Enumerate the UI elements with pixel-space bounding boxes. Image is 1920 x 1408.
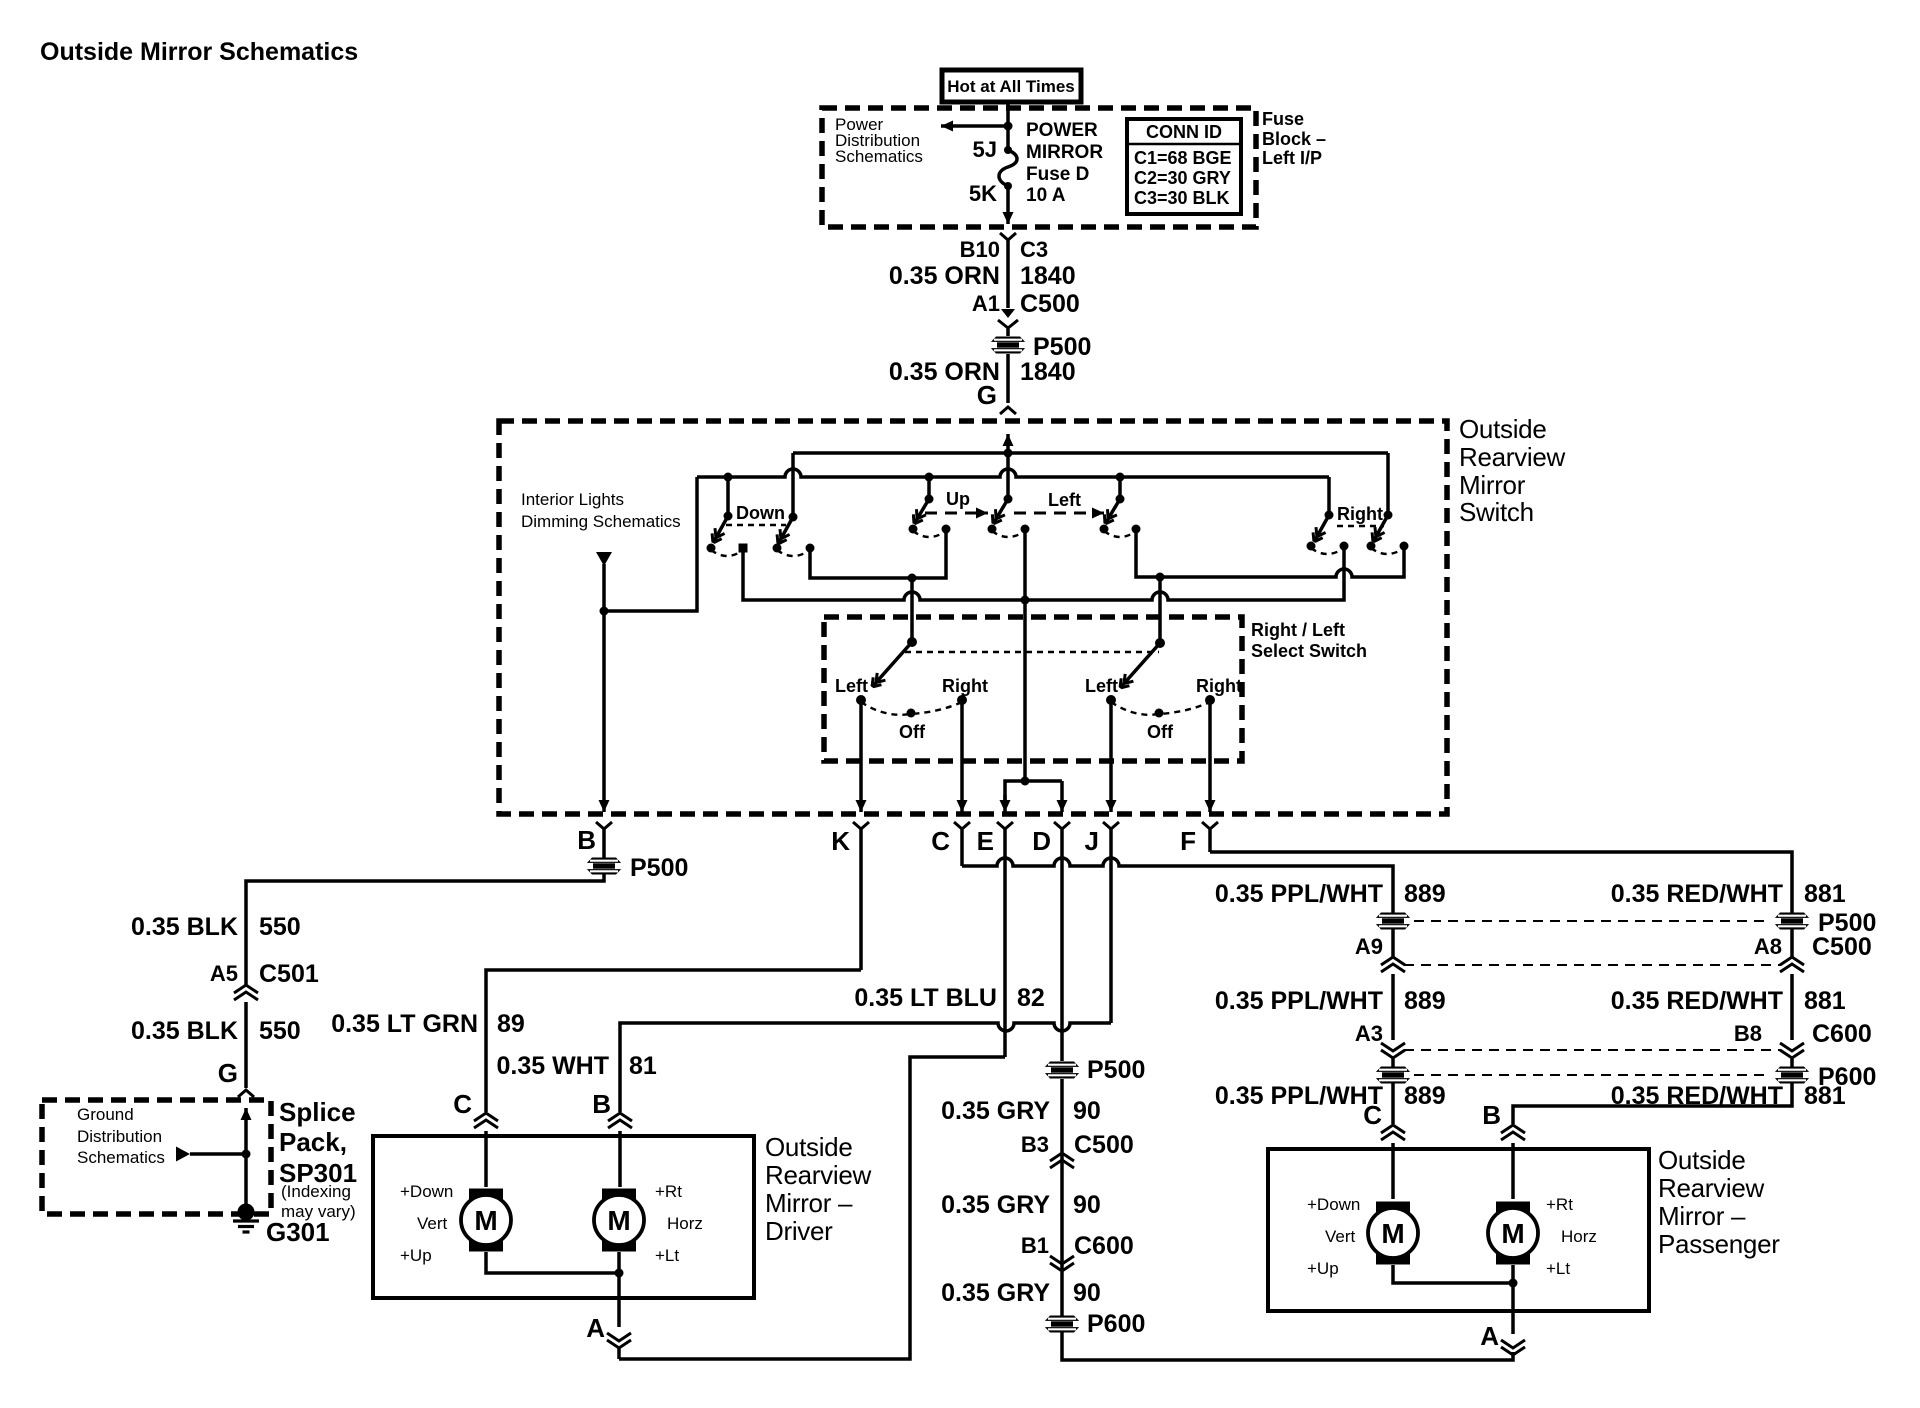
- connector C500 chevrons (D net): [1060, 1079, 1064, 1170]
- svg-text:Right: Right: [1337, 504, 1383, 524]
- dashed gang link Down: [726, 524, 786, 526]
- svg-text:0.35 GRY: 0.35 GRY: [941, 1279, 1050, 1307]
- svg-text:+Lt: +Lt: [655, 1246, 679, 1265]
- wire: up-1 feed from bus2: [925, 473, 934, 482]
- svg-text:Outside: Outside: [1658, 1145, 1746, 1175]
- dashed gang link Right: [1337, 525, 1384, 527]
- svg-text:P600: P600: [1087, 1310, 1145, 1338]
- svg-text:Distribution: Distribution: [77, 1127, 162, 1146]
- label: Splice Pack SP301: [279, 1097, 357, 1221]
- motor driver Horz: [594, 1189, 644, 1252]
- svg-text:MIRROR: MIRROR: [1026, 142, 1103, 163]
- svg-text:0.35 ORN: 0.35 ORN: [889, 262, 1000, 290]
- svg-text:P500: P500: [1033, 333, 1091, 361]
- fuse block dashed box: [822, 108, 1256, 227]
- svg-text:0.35 RED/WHT: 0.35 RED/WHT: [1611, 987, 1783, 1015]
- svg-text:C: C: [931, 826, 950, 856]
- wire: G entry arrow into switch box: [1006, 434, 1010, 453]
- svg-text:Fuse: Fuse: [1262, 109, 1304, 129]
- svg-text:G: G: [218, 1058, 238, 1088]
- dashed connector link P500 row: [1414, 920, 1771, 922]
- svg-text:B: B: [577, 825, 596, 855]
- svg-text:C501: C501: [259, 960, 319, 988]
- label: Ground Distribution Schematics: [77, 1105, 165, 1167]
- svg-text:0.35 BLK: 0.35 BLK: [131, 1017, 238, 1045]
- connector P600 pair on mirror feeds: [1373, 1067, 1413, 1084]
- svg-text:B: B: [1482, 1100, 1501, 1130]
- svg-text:Left I/P: Left I/P: [1262, 148, 1322, 168]
- svg-text:A3: A3: [1355, 1021, 1383, 1046]
- select switch arm 1: [907, 637, 917, 647]
- fork at switch box entry: [1000, 407, 1016, 414]
- svg-text:K: K: [831, 826, 850, 856]
- svg-text:C1=68 BGE: C1=68 BGE: [1134, 148, 1232, 168]
- switch arm Left-2: [1116, 495, 1125, 504]
- svg-text:Hot at All Times: Hot at All Times: [947, 77, 1075, 96]
- svg-text:G: G: [977, 380, 997, 410]
- svg-text:C500: C500: [1020, 290, 1080, 318]
- contacts Right-2: [1367, 542, 1376, 551]
- label: Interior Lights Dimming Schematics: [521, 490, 681, 531]
- svg-text:C2=30 GRY: C2=30 GRY: [1134, 168, 1231, 188]
- svg-text:Right / Left: Right / Left: [1251, 620, 1345, 640]
- svg-text:Up: Up: [946, 489, 970, 509]
- wire: reference arrow to Power Distribution Schematics: [941, 124, 1008, 128]
- motor driver Vert: [461, 1189, 511, 1252]
- node: junction D-net on y=600: [1021, 596, 1030, 605]
- svg-text:A: A: [586, 1313, 605, 1343]
- svg-text:10 A: 10 A: [1026, 185, 1066, 206]
- svg-text:J: J: [1085, 826, 1099, 856]
- svg-text:881: 881: [1804, 880, 1846, 908]
- exit forks and cavity letters B K C E D J F: [596, 822, 612, 829]
- node: junction select-1 feed: [908, 574, 917, 583]
- ground symbol G301: [233, 1221, 259, 1232]
- wire: D-net goalpost split to E and D exits: [1005, 781, 1062, 800]
- svg-text:90: 90: [1073, 1279, 1101, 1307]
- svg-text:G301: G301: [266, 1217, 330, 1247]
- wire: driver motors common to A: [486, 1252, 619, 1273]
- switch arm Right-1: [1325, 511, 1334, 520]
- dashed throw arrow Up: [925, 512, 988, 515]
- connector C600 chevrons A3/B8: [1381, 1043, 1405, 1058]
- svg-text:Horz: Horz: [667, 1214, 703, 1233]
- connector fork at fuse block exit: [1000, 233, 1016, 240]
- wire: main feed bus 1 (upper): [793, 451, 1388, 455]
- label: POWER MIRROR Fuse D 10 A: [1026, 120, 1103, 206]
- wire: fuse output down with exit arrow: [1006, 186, 1010, 224]
- wire: PPL/WHT down to passenger C: [1391, 1083, 1395, 1124]
- label: Outside Rearview Mirror Switch: [1459, 414, 1565, 527]
- svg-text:0.35 PPL/WHT: 0.35 PPL/WHT: [1215, 987, 1383, 1015]
- wire: up-2 contact down to D-net junction and goalpost: [1023, 529, 1027, 781]
- svg-text:B10: B10: [960, 237, 1000, 262]
- wire: C net across to passenger PPL/WHT: [962, 858, 1393, 913]
- wire: down2/up1 link at y=578: [810, 529, 946, 578]
- dashed throw arrow Left: [1014, 512, 1104, 515]
- passenger mirror box: [1268, 1149, 1649, 1311]
- svg-text:Fuse D: Fuse D: [1026, 164, 1089, 185]
- dashed connector link A9-A8 row: [1404, 964, 1781, 966]
- svg-text:Down: Down: [736, 503, 785, 523]
- svg-text:Ground: Ground: [77, 1105, 134, 1124]
- svg-text:A8: A8: [1754, 934, 1782, 959]
- svg-text:Mirror –: Mirror –: [765, 1188, 853, 1218]
- svg-text:Horz: Horz: [1561, 1227, 1597, 1246]
- svg-text:881: 881: [1804, 987, 1846, 1015]
- svg-text:+Up: +Up: [400, 1246, 432, 1265]
- svg-text:0.35 LT BLU: 0.35 LT BLU: [854, 984, 997, 1012]
- svg-text:+Rt: +Rt: [655, 1182, 682, 1201]
- svg-text:Switch: Switch: [1459, 497, 1534, 527]
- svg-text:Pack,: Pack,: [279, 1127, 347, 1157]
- svg-text:Rearview: Rearview: [1459, 442, 1565, 472]
- svg-text:+Down: +Down: [1307, 1195, 1360, 1214]
- wire from Hot box down to fuse: [1006, 102, 1010, 150]
- svg-text:POWER: POWER: [1026, 120, 1098, 141]
- svg-text:5K: 5K: [969, 181, 997, 206]
- contacts Up-2: [988, 525, 997, 534]
- svg-text:B8: B8: [1734, 1021, 1762, 1046]
- select switch arm 2: [1155, 638, 1165, 648]
- svg-text:0.35 GRY: 0.35 GRY: [941, 1097, 1050, 1125]
- svg-text:Outside Mirror Schematics: Outside Mirror Schematics: [40, 38, 358, 66]
- wire: J net to driver mirror B terminal: [620, 1023, 1111, 1112]
- svg-text:Block –: Block –: [1262, 129, 1326, 149]
- CONN ID table: [1127, 119, 1241, 214]
- svg-text:A: A: [1480, 1321, 1499, 1351]
- ground distribution dashed box: [42, 1100, 271, 1214]
- svg-text:Dimming Schematics: Dimming Schematics: [521, 512, 681, 531]
- wire: reference arrow to Ground Distribution Schematics: [190, 1152, 246, 1156]
- svg-text:B3: B3: [1021, 1132, 1049, 1157]
- svg-text:Right: Right: [1196, 676, 1242, 696]
- svg-text:Vert: Vert: [417, 1214, 448, 1233]
- wire: square contact to y=600 run with hops, to right-1 contact: [743, 548, 1344, 600]
- svg-text:889: 889: [1404, 880, 1446, 908]
- svg-text:Left: Left: [835, 676, 868, 696]
- wire: down-2 feed from bus1 left end: [791, 453, 795, 517]
- svg-text:82: 82: [1017, 984, 1045, 1012]
- wire: main feed down through bus2 hop to Up-2 arm pivot: [1006, 453, 1010, 499]
- driver mirror box: [373, 1136, 754, 1298]
- svg-text:Mirror: Mirror: [1459, 470, 1526, 500]
- svg-text:E: E: [977, 826, 994, 856]
- switch arm Right-2: [1384, 511, 1393, 520]
- svg-text:C500: C500: [1812, 933, 1872, 961]
- dashed connector link P600 row: [1414, 1074, 1771, 1076]
- dashed connector link A3-B8 row: [1404, 1049, 1781, 1051]
- svg-text:550: 550: [259, 913, 301, 941]
- connector P500 pair on mirror feeds: [1373, 913, 1413, 930]
- svg-text:A9: A9: [1355, 934, 1383, 959]
- fork at ground feed: [238, 1090, 254, 1097]
- svg-text:C: C: [453, 1089, 472, 1119]
- connector P500 (pass-through lens): [988, 337, 1028, 354]
- svg-text:B1: B1: [1021, 1233, 1049, 1258]
- svg-text:1840: 1840: [1020, 262, 1076, 290]
- svg-text:0.35 WHT: 0.35 WHT: [496, 1052, 609, 1080]
- contacts Down-2: [773, 544, 782, 553]
- connector P500 on B wire: [584, 858, 624, 875]
- svg-text:0.35 PPL/WHT: 0.35 PPL/WHT: [1215, 1082, 1383, 1110]
- wire: bus 2 with hops at 793 and 1008: [697, 469, 1329, 477]
- connector C500 chevrons A9/A8: [1391, 929, 1395, 957]
- connector C600 chevrons (D net): [1060, 1170, 1064, 1316]
- svg-text:0.35 GRY: 0.35 GRY: [941, 1191, 1050, 1219]
- wire: F net across to RED/WHT: [1210, 852, 1792, 913]
- svg-text:Schematics: Schematics: [77, 1148, 165, 1167]
- svg-text:C3: C3: [1020, 237, 1048, 262]
- wire: left2/right2 link at y=577: [1136, 529, 1404, 577]
- svg-text:C600: C600: [1074, 1232, 1134, 1260]
- wire: left-2 feed from bus2: [1116, 473, 1125, 482]
- label: Outside Rearview Mirror - Passenger: [1658, 1145, 1780, 1259]
- svg-text:+Down: +Down: [400, 1182, 453, 1201]
- svg-text:Off: Off: [1147, 722, 1174, 742]
- connector C501 inline chevrons: [234, 985, 258, 1000]
- connector P500 on D net: [1042, 1062, 1082, 1079]
- svg-text:C: C: [1363, 1100, 1382, 1130]
- select switch gang dashed link: [905, 651, 1159, 653]
- svg-text:0.35 BLK: 0.35 BLK: [131, 913, 238, 941]
- contacts Left-2: [1100, 525, 1109, 534]
- svg-text:A5: A5: [210, 961, 238, 986]
- connector P600 on D net: [1042, 1316, 1082, 1333]
- label: Right / Left Select Switch: [1251, 620, 1367, 661]
- contacts Down-1: [707, 544, 716, 553]
- svg-text:Off: Off: [899, 722, 926, 742]
- svg-text:+Rt: +Rt: [1546, 1195, 1573, 1214]
- svg-text:0.35 PPL/WHT: 0.35 PPL/WHT: [1215, 880, 1383, 908]
- contacts Right-1: [1307, 542, 1316, 551]
- svg-text:5J: 5J: [973, 137, 997, 162]
- svg-text:90: 90: [1073, 1191, 1101, 1219]
- svg-text:F: F: [1180, 826, 1196, 856]
- svg-text:Splice: Splice: [279, 1097, 356, 1127]
- select-2 contacts Left/Off/Right: [1106, 695, 1116, 705]
- svg-text:81: 81: [629, 1052, 657, 1080]
- switch arm Down-2: [789, 513, 798, 522]
- wire: J output from select-2 Left contact: [1109, 700, 1113, 812]
- contacts Up-1: [909, 525, 918, 534]
- svg-text:Outside: Outside: [1459, 414, 1547, 444]
- svg-text:C600: C600: [1812, 1020, 1872, 1048]
- svg-text:Schematics: Schematics: [835, 147, 923, 166]
- wire: right-1 feed from bus2 right end: [1327, 477, 1331, 515]
- svg-text:881: 881: [1804, 1082, 1846, 1110]
- Hot at All Times box: [942, 70, 1081, 102]
- wire: down-1 feed from bus2: [724, 473, 733, 482]
- svg-text:550: 550: [259, 1017, 301, 1045]
- wire: passenger motors common to A: [1393, 1265, 1513, 1283]
- svg-text:P500: P500: [630, 854, 688, 882]
- svg-text:Rearview: Rearview: [765, 1160, 871, 1190]
- svg-text:Left: Left: [1048, 490, 1081, 510]
- svg-text:A1: A1: [972, 291, 1000, 316]
- label: Power Distribution Schematics: [835, 115, 923, 166]
- svg-text:Select Switch: Select Switch: [1251, 641, 1367, 661]
- right/left select switch dashed box: [824, 617, 1242, 761]
- svg-text:0.35 RED/WHT: 0.35 RED/WHT: [1611, 880, 1783, 908]
- node: junction select-2 feed: [1156, 573, 1165, 582]
- motor passenger Horz: [1488, 1202, 1538, 1265]
- svg-text:D: D: [1032, 826, 1051, 856]
- svg-text:Driver: Driver: [765, 1216, 833, 1246]
- svg-text:Passenger: Passenger: [1658, 1229, 1780, 1259]
- wire: bus2 left end down and across to dimmer line: [604, 477, 697, 611]
- switch arm Up-2 (on main feed): [1004, 495, 1013, 504]
- node: junction at power distribution branch: [1004, 122, 1013, 131]
- wire: dimmer line down to B exit: [602, 564, 606, 812]
- svg-text:Right: Right: [942, 676, 988, 696]
- fuse element squiggle: [999, 150, 1017, 186]
- wire: F output from select-2 Right contact: [1208, 700, 1212, 812]
- wire: select-1 feed down: [910, 578, 914, 642]
- switch arm Up-1: [925, 495, 934, 504]
- wire: right-2 feed from bus1 right end: [1386, 453, 1390, 515]
- wire: C output from select-1 Right contact: [960, 700, 964, 812]
- svg-text:+Up: +Up: [1307, 1259, 1339, 1278]
- svg-text:(Indexing: (Indexing: [281, 1182, 351, 1201]
- svg-text:0.35 LT GRN: 0.35 LT GRN: [331, 1010, 478, 1038]
- wire: K output from select-1 Left contact: [859, 700, 863, 812]
- svg-text:B: B: [592, 1089, 611, 1119]
- svg-text:Outside: Outside: [765, 1132, 853, 1162]
- svg-text:90: 90: [1073, 1097, 1101, 1125]
- svg-text:C3=30 BLK: C3=30 BLK: [1134, 188, 1230, 208]
- wire: B net down, left, down to splice: [246, 874, 604, 985]
- svg-text:Vert: Vert: [1325, 1227, 1356, 1246]
- wire: RED/WHT down and left to passenger B: [1513, 1083, 1792, 1124]
- connector C500 inline (arrow + chevron): [1001, 309, 1015, 318]
- outside rearview mirror switch dashed box: [499, 421, 1447, 814]
- wire: entry arrow into ground box: [244, 1108, 248, 1120]
- splice SP301 dot: [238, 1204, 255, 1221]
- wire: E net down-left to driver A: [619, 1057, 1005, 1359]
- interior lights dimming feed triangle: [596, 552, 612, 566]
- motor passenger Vert: [1368, 1202, 1418, 1265]
- switch arm Down-1: [724, 512, 733, 521]
- select-1 contacts Left/Off/Right: [856, 695, 866, 705]
- svg-text:Rearview: Rearview: [1658, 1173, 1764, 1203]
- wire: select-2 feed down: [1158, 577, 1162, 643]
- svg-text:Interior Lights: Interior Lights: [521, 490, 624, 509]
- svg-text:1840: 1840: [1020, 358, 1076, 386]
- svg-text:889: 889: [1404, 987, 1446, 1015]
- wire: D net to passenger A terminal: [1062, 1332, 1513, 1360]
- svg-text:CONN ID: CONN ID: [1146, 122, 1222, 142]
- label: Outside Rearview Mirror - Driver: [765, 1132, 871, 1246]
- label: Fuse Block - Left I/P: [1262, 109, 1326, 168]
- svg-text:89: 89: [497, 1010, 525, 1038]
- svg-text:Left: Left: [1085, 676, 1118, 696]
- svg-text:Mirror –: Mirror –: [1658, 1201, 1746, 1231]
- wire: K net to driver mirror C terminal: [486, 970, 861, 1112]
- svg-text:C500: C500: [1074, 1131, 1134, 1159]
- svg-text:P500: P500: [1087, 1056, 1145, 1084]
- svg-text:889: 889: [1404, 1082, 1446, 1110]
- node: feed junction on bus 1: [1004, 449, 1013, 458]
- svg-text:+Lt: +Lt: [1546, 1259, 1570, 1278]
- node: junction dimmer line: [600, 607, 609, 616]
